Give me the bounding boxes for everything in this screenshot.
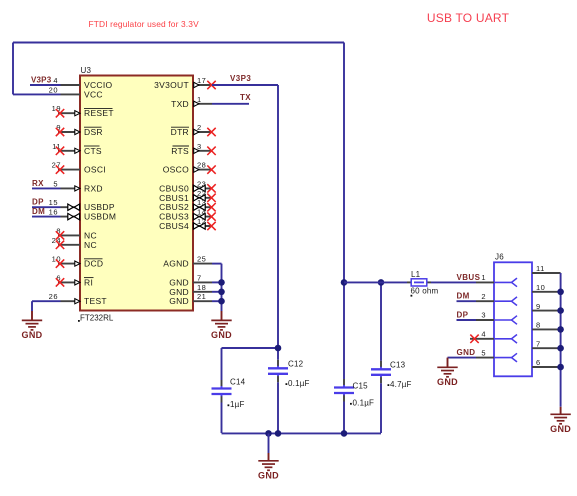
svg-text:AGND: AGND: [163, 259, 189, 269]
svg-text:5: 5: [53, 179, 58, 188]
svg-text:3V3OUT: 3V3OUT: [154, 80, 189, 90]
svg-text:V3P3: V3P3: [230, 74, 251, 83]
svg-text:C13: C13: [390, 361, 406, 370]
svg-text:9: 9: [536, 302, 541, 311]
svg-text:TXD: TXD: [171, 99, 189, 109]
svg-text:L1: L1: [411, 270, 421, 279]
svg-text:V3P3: V3P3: [31, 76, 52, 85]
svg-text:U3: U3: [81, 66, 92, 75]
svg-text:4: 4: [481, 330, 486, 339]
svg-text:TX: TX: [240, 93, 251, 102]
svg-text:FTDI regulator used for 3.3V: FTDI regulator used for 3.3V: [89, 19, 200, 29]
svg-text:20: 20: [49, 85, 58, 94]
svg-text:3: 3: [197, 142, 202, 151]
svg-text:1µF: 1µF: [230, 400, 245, 409]
svg-text:CTS: CTS: [84, 146, 102, 156]
svg-text:8: 8: [536, 321, 541, 330]
svg-text:23: 23: [197, 179, 206, 188]
svg-text:C15: C15: [353, 381, 369, 390]
svg-text:RTS: RTS: [171, 146, 189, 156]
svg-text:17: 17: [197, 76, 206, 85]
svg-text:OSCO: OSCO: [163, 165, 189, 175]
svg-text:7: 7: [197, 273, 202, 282]
svg-text:26: 26: [49, 292, 58, 301]
svg-text:GND: GND: [22, 330, 43, 340]
svg-text:0.1µF: 0.1µF: [288, 379, 310, 388]
svg-text:DCD: DCD: [84, 259, 103, 269]
svg-text:VCC: VCC: [84, 89, 103, 99]
svg-text:VBUS: VBUS: [457, 273, 481, 282]
svg-text:GND: GND: [211, 330, 232, 340]
svg-text:11: 11: [536, 264, 545, 273]
svg-text:FT232RL: FT232RL: [80, 314, 114, 323]
svg-text:RESET: RESET: [84, 108, 114, 118]
svg-text:C14: C14: [230, 378, 246, 387]
svg-text:6: 6: [536, 358, 541, 367]
svg-text:RXD: RXD: [84, 183, 103, 193]
svg-text:DM: DM: [32, 207, 45, 216]
svg-text:14: 14: [197, 208, 206, 217]
svg-text:2: 2: [481, 292, 486, 301]
svg-text:0.1µF: 0.1µF: [353, 399, 375, 408]
svg-text:GND: GND: [258, 471, 279, 481]
svg-text:28: 28: [197, 161, 206, 170]
svg-text:25: 25: [197, 255, 206, 264]
svg-text:21: 21: [197, 292, 206, 301]
svg-text:RX: RX: [32, 179, 44, 188]
svg-text:4.7µF: 4.7µF: [390, 380, 412, 389]
svg-text:5: 5: [481, 348, 486, 357]
svg-text:4: 4: [53, 76, 58, 85]
svg-text:GND: GND: [437, 377, 458, 387]
svg-text:22: 22: [197, 189, 206, 198]
svg-text:10: 10: [536, 283, 545, 292]
svg-text:15: 15: [49, 198, 58, 207]
svg-text:1: 1: [481, 273, 486, 282]
svg-text:NC: NC: [84, 240, 97, 250]
svg-text:DSR: DSR: [84, 127, 103, 137]
svg-text:C12: C12: [288, 360, 304, 369]
svg-text:13: 13: [197, 198, 206, 207]
svg-text:USB TO UART: USB TO UART: [427, 11, 510, 25]
svg-text:3: 3: [481, 311, 486, 320]
svg-text:12: 12: [197, 217, 206, 226]
svg-text:GND: GND: [550, 424, 571, 434]
svg-text:GND: GND: [169, 296, 189, 306]
svg-text:DP: DP: [32, 198, 44, 207]
svg-text:USBDM: USBDM: [84, 212, 116, 222]
svg-text:DTR: DTR: [171, 127, 189, 137]
svg-text:GND: GND: [457, 348, 476, 357]
svg-text:J6: J6: [495, 253, 504, 262]
svg-text:RI: RI: [84, 277, 93, 287]
svg-text:1: 1: [197, 95, 202, 104]
svg-text:7: 7: [536, 339, 541, 348]
svg-text:18: 18: [197, 283, 206, 292]
svg-text:16: 16: [49, 208, 58, 217]
svg-text:60 ohm: 60 ohm: [411, 287, 439, 296]
svg-text:TEST: TEST: [84, 296, 107, 306]
svg-text:OSCI: OSCI: [84, 165, 106, 175]
svg-text:CBUS4: CBUS4: [159, 221, 189, 231]
svg-text:DP: DP: [457, 310, 469, 319]
svg-text:2: 2: [197, 123, 202, 132]
svg-text:DM: DM: [457, 292, 470, 301]
